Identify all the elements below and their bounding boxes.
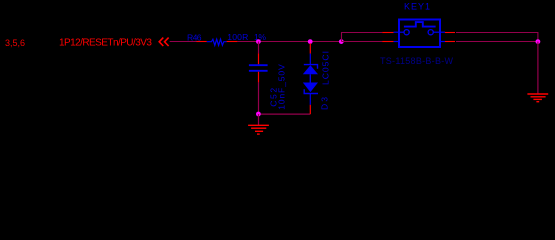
capacitor C52 pin 1 [258, 53, 260, 64]
svg-text:3,5,6: 3,5,6 [5, 38, 25, 48]
svg-text:TS-1158B-B-B-W: TS-1158B-B-B-W [380, 56, 454, 66]
wire: port to resistor pin1 [170, 41, 197, 43]
switch KEY1 pin 3 (lower left) [382, 41, 393, 43]
capacitor C52 plates [249, 64, 268, 66]
diode D3 pin 2 (bottom) [309, 105, 311, 114]
switch KEY1 body [394, 20, 445, 48]
svg-text:10nF_50V: 10nF_50V [276, 64, 286, 110]
svg-text:100R: 100R [227, 32, 248, 42]
switch KEY1 pin 1 (upper left) [382, 32, 393, 34]
junction node at switch branch [339, 39, 344, 44]
wire: capacitor to bottom rail [258, 82, 260, 114]
ground (right) [527, 94, 548, 102]
diode D3 body (dual TVS) [303, 54, 318, 105]
wire: down to right ground [537, 42, 539, 94]
wire: upper right run to corner [456, 33, 538, 42]
junction node at ground tap [256, 112, 261, 117]
wire: lower right run [456, 41, 538, 43]
wire: node down to capacitor [258, 42, 260, 54]
ground (left) [248, 125, 269, 134]
wire: bottom rail from capacitor to diode [259, 113, 311, 115]
switch KEY1 pin 2 (upper right) [445, 32, 455, 34]
svg-text:LC05CI: LC05CI [321, 51, 331, 85]
resistor R46 body [207, 39, 227, 45]
junction node at diode tap [308, 39, 313, 44]
resistor R46 pin 2 [227, 41, 238, 43]
junction node at capacitor tap [256, 39, 261, 44]
wire: riser to switch upper pin [342, 33, 383, 42]
wire: lower run to switch pin [342, 41, 383, 43]
svg-text:R46: R46 [187, 33, 202, 43]
junction node at right ground [536, 39, 541, 44]
svg-text:KEY1: KEY1 [404, 2, 430, 12]
wire: resistor to switch node [237, 41, 382, 43]
port connector chevrons << [159, 38, 168, 46]
switch KEY1 pin 4 (lower right) [445, 41, 455, 43]
wire: node to ground stem [258, 114, 260, 125]
capacitor C52 pin 2 [258, 72, 260, 83]
svg-text:1P12/RESETn/PU/3V3: 1P12/RESETn/PU/3V3 [59, 38, 152, 49]
resistor R46 pin 1 [196, 41, 206, 43]
diode D3 pin 1 (top) [309, 43, 311, 53]
